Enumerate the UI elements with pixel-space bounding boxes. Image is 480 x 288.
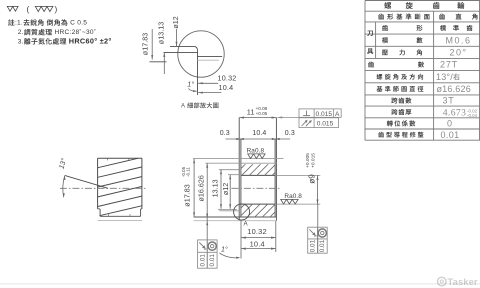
tolerance frame total runout 0.015 [299,118,339,128]
svg-text:A: A [335,111,340,118]
svg-text:0.3: 0.3 [285,130,295,137]
svg-text:10.4: 10.4 [219,83,234,92]
datum frame lower right (runout/concentricity 0.01) [308,227,328,253]
svg-text:ø12: ø12 [221,183,230,195]
detail profile line ø12 level [170,45,194,47]
table row 壓力角 / 20° [382,48,468,58]
extension line 13.13 top [219,169,239,171]
svg-text:11: 11 [247,107,255,116]
svg-text:+0.015: +0.015 [310,153,316,168]
detail view A circle [178,31,224,77]
dimension line 0.3/10.4/0.3 [226,138,291,140]
dimension ø16.626 (main) [196,163,208,268]
bore bottom line [241,203,275,205]
svg-text::1.: :1. [15,20,23,27]
svg-text:13.13: 13.13 [211,179,220,197]
helix line 4 [98,187,142,197]
svg-text:-0.11: -0.11 [186,167,191,177]
svg-text:20°: 20° [449,48,467,58]
svg-text:+0.005: +0.005 [305,153,311,168]
helix line 2 [98,167,142,177]
svg-text:13°/: 13°/ [436,72,453,82]
OD top line ø17.83 level [193,158,284,160]
rim bottom root line [194,216,277,218]
detail view caption [181,102,218,109]
svg-text:0: 0 [447,119,452,129]
svg-text:3T: 3T [442,96,454,106]
side view centerline [60,187,147,189]
svg-text:ø17.83: ø17.83 [141,33,150,55]
table row 跨齒厚 / 4.673 [391,107,477,118]
surface finish symbols [7,5,57,14]
dimension 10.4 bottom [241,239,276,249]
svg-text:ø12: ø12 [171,16,180,28]
svg-text:ø9: ø9 [308,174,317,184]
dimension 13 degrees [58,157,69,197]
svg-text:1°: 1° [187,81,194,89]
helix angle reference line [65,175,108,188]
svg-text:Tasker: Tasker [448,276,478,287]
main view centerline [231,187,281,189]
svg-text:HRC:28˚~30˚: HRC:28˚~30˚ [52,28,96,36]
svg-text:10.32: 10.32 [247,227,266,236]
dimension ø13.13 (detail) [156,22,165,74]
svg-text:0.015: 0.015 [317,121,334,128]
dimension 10.32 (detail) [198,73,236,84]
svg-text:27T: 27T [440,60,458,70]
detail faint line right [198,59,220,61]
svg-text:HRC60° ±2°: HRC60° ±2° [69,36,112,45]
side view bottom extension line [98,220,142,222]
pitch line top ø16.626 level [206,162,277,164]
leader to tolerance frames [277,116,299,118]
tolerance frame perpendicularity 0.015 A [299,109,341,118]
svg-text:ø13.13: ø13.13 [156,22,165,44]
detail circle A marker [234,204,250,220]
main view rim left extension-edge [238,118,240,221]
detail profile line ø13.13 level [164,51,198,53]
main view rim right chamfer line [274,139,276,217]
helix line 1 [98,158,138,167]
bore top extension right [276,174,320,176]
surface finish Ra0.8 bore [281,193,303,204]
angle 1 degree (main) [220,246,241,259]
dimension 10.4 (detail) [198,83,233,94]
svg-text:0.01: 0.01 [440,130,459,140]
dimension ø9 with tolerance [305,153,318,204]
svg-text:10.32: 10.32 [218,73,237,82]
extension line ø12 top [228,174,239,176]
svg-text:1°: 1° [221,246,228,254]
svg-text:ø17.83: ø17.83 [183,184,192,206]
note line 1 [8,19,87,26]
detail profile vertical line [197,50,199,95]
extension line taper left [240,220,242,259]
main view rim left chamfer line [240,139,242,217]
svg-text:M0.6: M0.6 [445,35,471,45]
svg-text:4.673: 4.673 [443,107,467,118]
angle 1 degree (detail) [187,81,197,93]
extension line ø12 bottom [218,208,237,210]
svg-text:0.015: 0.015 [316,111,333,118]
svg-text:(: ( [27,5,30,14]
svg-text:0.01: 0.01 [309,239,316,252]
svg-text:C 0.5: C 0.5 [68,20,87,27]
dimension ø17.83 with tolerance (main) [181,159,195,217]
note line 2 [18,28,96,36]
side view chamfer ticks [108,158,131,216]
svg-text:+0.05: +0.05 [256,111,268,116]
dimension ø12 (detail) [171,16,180,46]
table row 跨齒數 / 3T [391,96,454,106]
svg-text:0.3: 0.3 [220,130,230,137]
svg-text:2.: 2. [18,29,24,36]
helix line 6 [100,206,142,216]
svg-text:A: A [181,104,187,110]
table title 螺旋齒輪 [384,2,464,9]
svg-text:): ) [55,5,58,14]
table row 齒數 / 27T [368,60,458,70]
extension line 13.13 bottom [219,210,240,212]
svg-text:ø16.626: ø16.626 [196,175,205,201]
dimension 11 +0.08 +0.05 [239,106,276,118]
svg-text:0.01: 0.01 [319,239,326,252]
table row 模數 / M0.6 [382,35,472,45]
side view outline [98,158,142,216]
dimension 10.32 bottom [241,227,276,239]
detail profile line right of vertical [198,55,223,57]
bore bottom extension right [276,203,320,205]
svg-text:ø16.626: ø16.626 [436,84,470,94]
table row 轉位係數 / 0 [387,119,452,129]
main view rim right extension-edge [275,118,277,221]
dimension 13.13 (main) [211,170,222,209]
svg-text:10.4: 10.4 [250,239,265,248]
OD bottom line ø17.83 level [194,220,277,222]
page bottom rule [0,283,480,285]
watermark Tasker [438,276,478,287]
table row 齒形基準斷面 / 齒直角 [378,14,477,20]
dimension ø17.83 (detail) [141,29,154,60]
datum frame lower left (runout/concentricity 0.01) [198,240,218,268]
bore top line [241,174,275,176]
surface finish Ra0.8 top [247,148,266,159]
helix line 5 [98,196,142,206]
dimension ø12 (main) [221,175,231,209]
svg-text:0.01: 0.01 [209,254,216,267]
table grid [365,1,480,141]
svg-text:0.01: 0.01 [199,254,206,267]
table row 螺旋角及方向 / 13°/右 [377,72,460,82]
extension line right face bottom [275,221,277,252]
table row 齒型導程修整 / 0.01 [378,130,459,140]
helix line 3 [98,177,142,187]
svg-text:10.4: 10.4 [252,130,266,137]
leader line to lower right frame [317,204,319,253]
note line 3 [18,36,112,45]
table column 刀具 [367,31,373,54]
table row 基準節圓直徑 / ø16.626 [377,84,471,94]
svg-text:-0.04: -0.04 [467,113,478,118]
detail profile line ø17.83 level [150,61,167,63]
svg-text:3.: 3. [18,38,24,45]
table row 齒形 / 標準齒 [382,25,472,31]
